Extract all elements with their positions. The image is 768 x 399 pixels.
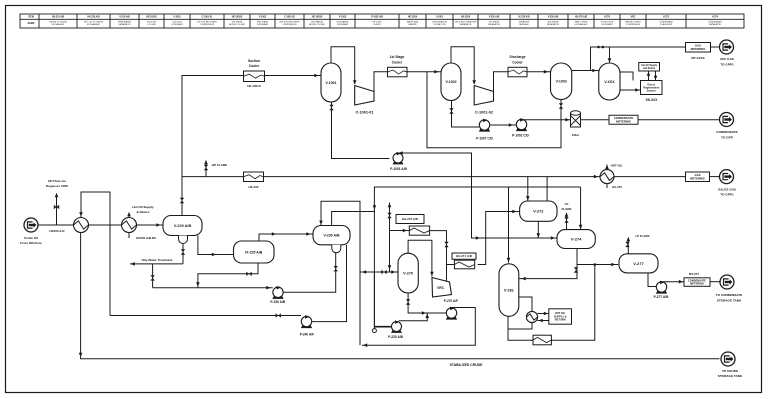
wire stabilizer reboiler downcomer: [551, 265, 594, 341]
svg-text:MT-XXXX: MT-XXXX: [691, 56, 704, 60]
wire V-1003 outlet to V-XXX: [572, 70, 599, 72]
wire heater to hot oil box: [538, 313, 549, 315]
compressor C-1001-02: [474, 86, 493, 106]
valve on HP flare degasser branch: [54, 205, 59, 209]
svg-text:VRC: VRC: [631, 17, 636, 19]
hot oil heater circle at V-281: [526, 311, 537, 322]
wire P-1007 to P-1002: [490, 124, 516, 126]
wire crude line HX220 to V-220: [137, 224, 164, 226]
svg-text:CONDENSATESEPARATOR: CONDENSATESEPARATOR: [708, 21, 722, 27]
junction dots on off gas line: [597, 46, 600, 49]
wire V-277 bottoms to P-277: [648, 273, 656, 287]
valve on P-240 suction: [276, 313, 281, 317]
pump P-270 A/F: [446, 307, 457, 320]
wire V-220 boot drain: [182, 244, 184, 264]
wire V-270 bottoms to P-270: [408, 293, 446, 313]
svg-text:V-1002: V-1002: [445, 80, 456, 84]
svg-text:V-277: V-277: [633, 261, 644, 266]
pump P-225 A/B: [388, 320, 403, 339]
svg-text:IX-225 A/B: IX-225 A/B: [518, 16, 530, 19]
svg-text:P-1002 C/D: P-1002 C/D: [512, 134, 529, 138]
box hot oil supply and return at V-281: [549, 309, 572, 324]
exchanger HX-270 A/D: [409, 226, 429, 235]
pump P-1007 C/D: [476, 119, 493, 141]
wire HP flare via degasser branch: [56, 194, 58, 226]
exchanger HX-271 A/D: [454, 260, 474, 269]
wire V-274 bottoms to V-281: [519, 249, 577, 279]
valve on V-274 bottoms: [574, 267, 578, 272]
wire crude oil feed from connector to HX200: [39, 224, 74, 226]
svg-text:C-1001-02: C-1001-02: [475, 111, 493, 115]
svg-text:P-270 A/F: P-270 A/F: [444, 299, 458, 303]
wire stabilized crude product line: [81, 233, 720, 359]
wire V-220 gas riser to suction cooler: [182, 76, 244, 216]
wire V-281 overhead riser: [508, 187, 510, 263]
svg-text:V-1003: V-1003: [339, 17, 347, 19]
off-page connector: crude oil from offshore: [24, 218, 38, 232]
svg-text:HX-230X: HX-230X: [461, 17, 471, 19]
discharge cooler: [508, 67, 527, 77]
wire V-270 feed line: [374, 271, 398, 273]
wire V-XXX lower outlet to glycol regen: [620, 89, 641, 91]
svg-text:Oily Water Treatment: Oily Water Treatment: [142, 258, 173, 262]
valve on V-274 LP flare: [564, 217, 568, 222]
wire HX-270 inlet horizontal: [390, 230, 410, 232]
svg-text:HP FLARE: HP FLARE: [212, 163, 227, 167]
valve on V-220 gas riser: [180, 198, 184, 203]
wire HX-272 hot oil stub up: [606, 165, 608, 170]
box hot oil supply and return (glycol): [639, 63, 660, 72]
wire V-230 vapour line to recycle drop: [332, 212, 375, 226]
vessel V-281 stabilizer: [499, 264, 519, 317]
svg-text:LP FLARE: LP FLARE: [635, 234, 649, 238]
wire C-1001-01 discharge to 1st stage cooler: [374, 72, 389, 91]
svg-text:V-281: V-281: [504, 288, 514, 292]
wire HX-272 hot oil stub down: [606, 184, 608, 188]
wire header drop into V-272 top A: [527, 177, 529, 201]
exchanger HX-23X on sales header: [244, 172, 264, 182]
1st stage cooler: [388, 67, 408, 77]
valve on V-1003 bottoms: [559, 103, 563, 108]
svg-text:FEED / BTMSEXCHANGER: FEED / BTMSEXCHANGER: [575, 22, 588, 27]
wire hot oil box to heater: [538, 320, 549, 322]
wire interstage liquid loop V-1003 bottoms: [427, 72, 561, 148]
wire header drop into V-272 top B: [546, 177, 548, 201]
wire gas metering 2 to sales gas connector: [710, 176, 720, 178]
wire V-1001 bottoms to P-1001: [332, 102, 390, 159]
svg-text:TO CONDENSATESTORAGE TANK: TO CONDENSATESTORAGE TANK: [716, 293, 743, 302]
wire recycle into V-230 top from P-270: [321, 201, 360, 345]
wire oily water tie down to bottoms header: [152, 264, 154, 288]
svg-text:V-274: V-274: [571, 236, 582, 241]
svg-text:P-240 A/F: P-240 A/F: [300, 332, 314, 336]
pump P-240 A/F: [300, 315, 314, 336]
svg-text:VR SUCTIONSCRUBBER: VR SUCTIONSCRUBBER: [601, 22, 614, 27]
boot of V-230: [332, 245, 341, 253]
wire feed tie to recycle riser: [360, 271, 374, 273]
wire sales gas header: [182, 176, 600, 178]
boot of V-220: [179, 236, 188, 244]
valve on HP flare branch: [204, 165, 208, 170]
valve on IX-225 bottoms: [246, 272, 251, 276]
terminal drain circle at P-225 suction corner: [372, 329, 376, 333]
svg-text:CONDENSATECOALESCER: CONDENSATECOALESCER: [659, 21, 673, 27]
svg-text:V-220 A/B: V-220 A/B: [174, 224, 192, 228]
vessel V-XXX dehydration contactor: [599, 63, 620, 100]
svg-text:V-272: V-272: [663, 17, 670, 19]
svg-text:P-1007 C/D: P-1007 C/D: [476, 136, 493, 140]
wire discharge cooler to V-1003: [527, 71, 551, 73]
wire C-1001-02 discharge to discharge cooler: [494, 72, 509, 91]
wire sales gas header after HX-272: [615, 176, 686, 178]
svg-text:Filter: Filter: [572, 133, 580, 137]
svg-text:V-1003: V-1003: [556, 80, 567, 84]
svg-text:V-XXX: V-XXX: [604, 80, 615, 84]
svg-text:HX200 A-R: HX200 A-R: [49, 229, 65, 233]
box gas metering (off gas): [686, 43, 711, 53]
junction dot condensate header: [594, 263, 597, 266]
box glycol regeneration system: [641, 81, 663, 102]
wire P-225 suction: [373, 272, 375, 329]
svg-text:C-1001-02: C-1001-02: [284, 17, 296, 19]
wire reboiler to V-281 bottoms: [508, 316, 533, 340]
svg-text:CONDENSATEMETERING: CONDENSATEMETERING: [614, 116, 634, 123]
svg-text:HX220 A/B.DX: HX220 A/B.DX: [136, 236, 156, 240]
wire V-281 hot oil heater supply: [519, 297, 532, 312]
wire V-230 boot drain to P-230 suction: [284, 252, 336, 292]
svg-text:SUCTIONSCRUBBER: SUCTIONSCRUBBER: [171, 22, 183, 27]
box HX-271 A/D label: [452, 253, 476, 259]
svg-text:VRC: VRC: [437, 286, 445, 290]
svg-text:P-225 A/B: P-225 A/B: [388, 335, 403, 339]
wire V-277 LP flare branch: [627, 238, 629, 255]
off-page connector: condensate to GPP: [720, 113, 734, 127]
wire bottoms header to P-230: [153, 287, 273, 289]
filter vessel: [571, 111, 581, 127]
svg-text:V-230 A/B: V-230 A/B: [323, 234, 339, 238]
wire HX-271 inlet stub: [447, 264, 455, 266]
svg-text:1ST STAGESEPARATOR: 1ST STAGESEPARATOR: [488, 21, 501, 27]
wire V-272 bottoms drop: [537, 221, 539, 238]
svg-text:SUCTIONCOOLER: SUCTIONCOOLER: [147, 22, 157, 27]
svg-text:IX-225 A/B: IX-225 A/B: [245, 250, 263, 254]
wire HP flare branch on sales header: [205, 161, 207, 177]
svg-text:SALES GASTO GPP1: SALES GASTO GPP1: [718, 188, 736, 197]
wire metering to condensate storage connector: [710, 281, 720, 283]
wire suction cooler to V-1001: [265, 75, 322, 77]
valve on V-277 LP flare: [625, 242, 629, 247]
svg-text:STABILIZED CRUDE: STABILIZED CRUDE: [450, 363, 483, 367]
wire oily water treatment line: [130, 263, 183, 265]
wire stabilized crude return bridge into HX200: [81, 192, 110, 316]
wire V-270 overhead to VRC suction: [408, 240, 432, 276]
box HX-270 A/D label: [396, 215, 424, 224]
svg-text:CONDENSATEMETERING: CONDENSATEMETERING: [688, 278, 706, 285]
wire P-225 suction stub: [374, 325, 391, 327]
wire P-225 discharge tie-in: [399, 314, 428, 321]
valve on HX-270 vent branch: [387, 213, 391, 218]
svg-text:V-210 A/B: V-210 A/B: [119, 16, 130, 19]
wire P-240 discharge riser into V-230: [312, 245, 346, 322]
off-page connector: to crude storage tank: [721, 352, 735, 366]
svg-text:SuctionCooler: SuctionCooler: [248, 59, 260, 68]
box condensate metering: [609, 115, 638, 124]
svg-text:DISCHARGEAFTER COOLER: DISCHARGEAFTER COOLER: [309, 21, 325, 27]
wire P-1002 discharge to filter: [522, 118, 571, 121]
svg-text:V-230 A/B: V-230 A/B: [548, 16, 559, 19]
svg-text:HE-1001X: HE-1001X: [146, 17, 157, 19]
wire off gas riser from V-1003 outlet: [591, 47, 686, 71]
vessel V-230 A/B separator: [313, 226, 350, 245]
wire crude line HX200 to HX220: [89, 224, 122, 226]
svg-text:HE-1002X: HE-1002X: [232, 17, 243, 19]
wire P-277 discharge to metering: [662, 281, 685, 283]
svg-text:HE-1001X: HE-1001X: [247, 84, 260, 88]
exchanger HX220 hot oil/crude: [122, 218, 137, 233]
wire P-240 suction from stabilized crude bridge: [110, 315, 301, 317]
vessel V-1001 suction scrubber: [321, 63, 341, 102]
equipment list table: [20, 14, 744, 28]
svg-text:C-1001-01: C-1001-01: [356, 111, 374, 115]
svg-text:V-1001: V-1001: [325, 81, 336, 85]
wire V-1002 overhead to C-1001-02 suction: [451, 47, 474, 84]
vessel V-1003 discharge scrubber: [551, 63, 572, 100]
vessel V-1002 scrubber: [441, 63, 461, 101]
svg-text:V-1001: V-1001: [173, 17, 181, 19]
svg-text:C-1001-01: C-1001-01: [202, 17, 214, 19]
svg-text:DEHYDRATIONCONTACTOR: DEHYDRATIONCONTACTOR: [432, 21, 447, 27]
compressor VRC: [432, 278, 452, 298]
pump P-277 A/B: [654, 281, 669, 300]
wire V-1001 overhead to C-1001-01 suction: [331, 47, 355, 84]
valve on V-230 boot drain: [334, 266, 338, 271]
wire V-XXX upper outlet to glycol regen: [620, 72, 633, 81]
wire HX-271 outlet riser to V-272: [478, 212, 520, 265]
wire V-220 bottoms to IX-225: [198, 236, 234, 255]
wire V-274 LP flare branch: [566, 213, 568, 230]
wire HX220 hot oil return stub: [128, 233, 130, 239]
svg-text:2ND STAGESEPARATOR: 2ND STAGESEPARATOR: [547, 21, 560, 27]
svg-text:HE-100X: HE-100X: [408, 17, 418, 19]
svg-text:DISCHARGESCRUBBER: DISCHARGESCRUBBER: [337, 21, 350, 27]
wire heater bottom return: [508, 323, 532, 330]
svg-text:P-1002 A/B: P-1002 A/B: [371, 16, 383, 19]
wire filter to condensate metering: [581, 119, 610, 121]
wire recycle gas drop into V-274 top: [580, 187, 582, 230]
svg-text:2ND STAGESCRUBBER: 2ND STAGESCRUBBER: [257, 21, 269, 27]
compressor C-1001-01: [355, 86, 374, 106]
svg-text:HOT OILSUPPLY &RETURN: HOT OILSUPPLY &RETURN: [554, 311, 567, 321]
svg-text:HX-272: HX-272: [612, 185, 622, 189]
stabilizer reboiler exchanger: [533, 335, 551, 345]
svg-text:MT-277: MT-277: [689, 272, 700, 276]
svg-text:P-1001 A/B: P-1001 A/B: [390, 167, 407, 171]
vessel V-270 VR suction scrubber: [398, 253, 418, 293]
svg-text:HX-271 A/D: HX-271 A/D: [456, 254, 473, 258]
wire P-1001 discharge header: [398, 153, 557, 238]
wire 1st stage cooler to V-1002: [407, 71, 441, 73]
vessel V-220 A/B separator: [163, 216, 202, 236]
vessel V-277: [619, 254, 658, 273]
svg-text:HE-1003X: HE-1003X: [312, 17, 323, 19]
off-page connector: to condensate storage tank: [720, 275, 734, 289]
off-page connector: sales gas to GPP1: [720, 170, 734, 184]
wire recycle gas header to V-270: [374, 187, 580, 327]
wire P-270 discharge return loop: [362, 308, 475, 346]
svg-text:SK-XXX: SK-XXX: [646, 98, 659, 102]
wire IX-225 bottoms drain: [198, 263, 258, 288]
svg-text:HX-270 A/D: HX-270 A/D: [402, 217, 419, 221]
svg-text:NAME: NAME: [28, 22, 35, 25]
valve on V-270 bottoms: [406, 299, 410, 304]
valve on HX-270/VRC line: [444, 242, 448, 247]
valve on V-1001 bottoms: [329, 105, 333, 110]
svg-text:HOT OIL: HOT OIL: [611, 164, 623, 168]
svg-text:VAP RECOVERYCOMPRESSOR: VAP RECOVERYCOMPRESSOR: [625, 21, 641, 27]
vessel IX-225 A/B: [234, 241, 275, 263]
wire gas drop into V-XXX top: [609, 47, 611, 63]
svg-text:HX-210 A/B: HX-210 A/B: [52, 16, 65, 19]
svg-text:OFF GASTO GPP1: OFF GASTO GPP1: [720, 57, 734, 66]
box condensate metering MT-277: [684, 278, 710, 287]
svg-text:HP Flare viaDegasser V290: HP Flare viaDegasser V290: [46, 179, 68, 188]
svg-text:V-XXX: V-XXX: [436, 17, 443, 19]
svg-text:HX-270 A/D: HX-270 A/D: [575, 16, 588, 19]
wire HX220 hot oil supply stub: [128, 213, 130, 218]
svg-text:DESALTERPACKAGE: DESALTERPACKAGE: [519, 21, 530, 27]
svg-text:V-270: V-270: [403, 272, 413, 276]
exchanger HX-272 sales gas heater: [600, 170, 614, 184]
svg-text:FREE WATERSEPARATOR: FREE WATERSEPARATOR: [118, 21, 131, 27]
off-page connector: off gas to GPP1: [720, 40, 734, 54]
svg-text:V-270: V-270: [604, 17, 611, 19]
svg-text:V-1002: V-1002: [259, 17, 267, 19]
valve on oily water tie line: [150, 275, 154, 280]
svg-text:HX-23X: HX-23X: [248, 185, 258, 189]
svg-text:V-274: V-274: [712, 16, 719, 19]
pump P-1002 C/D: [512, 118, 529, 138]
svg-text:V-272: V-272: [533, 209, 544, 214]
svg-text:P-230 A/B: P-230 A/B: [270, 300, 285, 304]
wire condensate header to V-277: [577, 264, 618, 266]
svg-text:HX-220 A/B: HX-220 A/B: [87, 16, 100, 19]
suction cooler HE-1001X: [244, 71, 265, 82]
svg-text:P-277 A/B: P-277 A/B: [654, 295, 669, 299]
svg-text:V-220 A/B: V-220 A/B: [489, 16, 500, 19]
wire condensate metering to condensate connector: [638, 119, 720, 121]
vessel V-274: [557, 230, 595, 249]
wire IX-225 overhead to V-230: [259, 234, 313, 241]
wire gas metering to off gas connector: [711, 46, 720, 48]
valve on V-270 feed: [381, 270, 386, 274]
svg-text:ITEM: ITEM: [28, 17, 34, 19]
pump P-230 A/B: [270, 286, 285, 304]
exchanger HX200 A-R crude/crude: [74, 218, 89, 233]
valve on V-220 boot drain: [181, 249, 185, 254]
wire HX-270 inlet branch: [389, 203, 391, 273]
pump P-1001 A/B: [390, 152, 407, 171]
wire hot oil box to glycol regen: [655, 71, 657, 81]
valve on V-1002 bottoms: [449, 108, 453, 113]
vessel V-272: [520, 201, 557, 221]
box gas metering (sales): [686, 172, 710, 182]
wire glycol regen to hot oil box: [648, 71, 650, 81]
wire HX-270 outlet to HX-271 and VRC: [430, 231, 447, 281]
wire V-1002 bottoms to P-1007: [452, 101, 480, 128]
